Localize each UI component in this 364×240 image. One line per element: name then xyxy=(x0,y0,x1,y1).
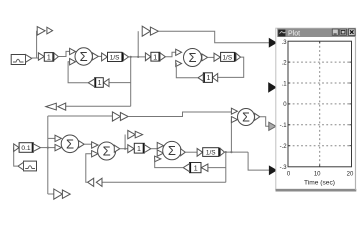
wire K3 to sum S4 with junction xyxy=(41,116,56,194)
svg-text:.2: .2 xyxy=(282,60,288,66)
wire S4 to sum S5 xyxy=(84,143,91,145)
sum S1 xyxy=(70,48,99,65)
svg-text:Σ: Σ xyxy=(80,49,88,64)
wire S5 to gain K4 with branch up xyxy=(120,135,128,150)
plot axes area xyxy=(288,41,352,167)
arrow A4 into scope xyxy=(269,166,276,174)
bottom-left dead-end pair G6a G6b xyxy=(48,189,70,199)
bottom long wire with left gain pair G5a G5b xyxy=(86,154,226,187)
axis ticks xyxy=(288,41,352,167)
integrator I1 1/S xyxy=(102,52,129,61)
x axis labels xyxy=(287,171,354,177)
svg-text:Σ: Σ xyxy=(103,144,111,159)
arrow A3 (gray, into scope) xyxy=(269,122,276,130)
sum S5 xyxy=(92,142,120,160)
wire S7 to gray arrow A3 xyxy=(260,117,269,126)
svg-text:.3: .3 xyxy=(282,40,288,46)
gain K4 value 1 xyxy=(128,143,151,153)
wire S2 to integrator I2 xyxy=(208,56,214,58)
svg-text:1/S: 1/S xyxy=(206,150,216,157)
svg-text:Time (sec): Time (sec) xyxy=(304,179,335,186)
svg-text:Σ: Σ xyxy=(66,136,74,151)
wire K4 to sum S6 xyxy=(151,148,157,150)
integrator I3 1/S xyxy=(197,148,224,157)
gain K1 value 1 xyxy=(38,53,58,62)
svg-text:.1: .1 xyxy=(282,81,288,87)
feedback gain FB3 (flipped) xyxy=(155,159,226,173)
wire S6 to integrator I3 xyxy=(185,151,197,153)
title bar xyxy=(277,28,355,37)
left gain pair G3a G3b (mid dead-end) xyxy=(46,103,131,110)
wire I1 output with branches xyxy=(129,31,146,106)
svg-text:1: 1 xyxy=(194,165,198,172)
svg-text:1: 1 xyxy=(98,80,102,87)
wire K1 to sum S1 xyxy=(58,51,69,56)
arrow A1 into scope xyxy=(269,39,276,47)
integrator I2 1/S xyxy=(214,52,241,61)
sum S6 xyxy=(155,141,186,161)
feedback gain FB2 (flipped) xyxy=(176,57,244,82)
wire I3 output with branches xyxy=(225,120,249,183)
arrow A2 into scope xyxy=(269,83,276,92)
gain pair G2a G2b (top-mid) xyxy=(142,26,158,36)
svg-text:10: 10 xyxy=(314,171,321,177)
svg-text:1/S: 1/S xyxy=(223,55,233,62)
wire I3 to arrow A4 xyxy=(248,152,269,170)
y axis labels xyxy=(280,40,288,171)
svg-text:1: 1 xyxy=(47,55,51,62)
svg-text:20: 20 xyxy=(347,171,354,177)
svg-text:-.3: -.3 xyxy=(280,165,288,171)
signal generator SG1 xyxy=(11,55,32,65)
wire SG1 to gain K1 xyxy=(32,31,39,58)
svg-text:1: 1 xyxy=(137,146,141,153)
title bar buttons xyxy=(332,29,355,36)
sum S7 xyxy=(231,108,259,125)
gain K2 value 1 xyxy=(145,52,165,61)
wire S1 to integrator I1 xyxy=(98,55,101,57)
gain K3 value 0.1 xyxy=(14,143,41,153)
wire H1 with gain pair G7a G7b to sum S7 xyxy=(48,112,232,121)
svg-text:Σ: Σ xyxy=(242,111,250,125)
svg-text:1: 1 xyxy=(207,75,211,82)
svg-text:Plot: Plot xyxy=(288,30,300,37)
time axis title xyxy=(304,179,335,186)
svg-text:Σ: Σ xyxy=(188,50,196,65)
scope window frame xyxy=(276,28,357,190)
svg-text:Σ: Σ xyxy=(168,143,176,158)
svg-text:1: 1 xyxy=(153,54,157,61)
svg-text:0.1: 0.1 xyxy=(21,145,30,152)
wire top to scope xyxy=(158,31,269,43)
sum S2 xyxy=(176,49,208,67)
gain pair G1a G1b (top-left dead-end) xyxy=(37,27,52,35)
grid dashed lines xyxy=(289,42,352,167)
svg-text:-.2: -.2 xyxy=(280,144,288,150)
signal generator SG2 (flipped) xyxy=(14,148,37,171)
svg-text:-.1: -.1 xyxy=(280,123,288,129)
gain pair G4a G4b (mid dead-end) xyxy=(128,130,143,138)
svg-text:1/S: 1/S xyxy=(110,55,120,62)
sum S4 xyxy=(55,135,84,153)
feedback gain FB1 (flipped) xyxy=(68,62,131,88)
wire K2 to sum S2 xyxy=(165,52,175,56)
